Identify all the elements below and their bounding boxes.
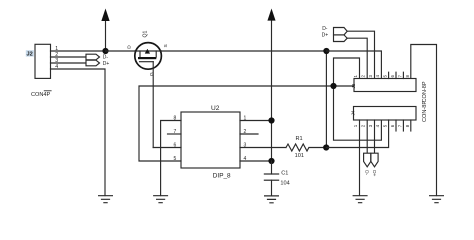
net flag D+ right (334, 35, 348, 42)
wire U2 pin5 long net to right connector (139, 86, 354, 161)
overline on 4P (44, 90, 52, 92)
svg-text:C1: C1 (281, 171, 288, 177)
svg-text:8: 8 (174, 115, 177, 121)
net flag D- left (86, 54, 100, 60)
svg-text:CON-8P: CON-8P (422, 81, 428, 102)
node A vertical link wire (325, 51, 327, 148)
pin 2 stub U2 (240, 133, 258, 135)
svg-text:7: 7 (174, 129, 177, 135)
svg-text:3: 3 (244, 142, 247, 148)
capacitor C1 bottom lead to ground (271, 180, 273, 196)
pin stub J4-7 (402, 120, 404, 131)
wire J4 pin3 to down flag D+ (374, 120, 376, 153)
svg-text:4: 4 (375, 75, 380, 78)
transistor Q1 source step (155, 51, 157, 57)
svg-text:1: 1 (353, 124, 358, 127)
ground 2 (U2 pin8) (154, 196, 168, 203)
svg-text:R1: R1 (296, 136, 303, 142)
svg-text:7: 7 (397, 124, 402, 127)
wire D- right to J3 pin3 (347, 31, 374, 78)
node U2 pin1 junction dot (268, 117, 274, 123)
svg-text:D-: D- (103, 54, 109, 60)
wire J4 pin5 to R1 net (326, 120, 388, 148)
pin stub J4-6 (395, 120, 397, 131)
transistor Q1 body arrow (145, 49, 149, 53)
transistor Q1 drain step (139, 51, 141, 57)
wire J4 pin2 to down flag D- (366, 120, 368, 153)
svg-text:D: D (127, 45, 133, 49)
svg-text:J3: J3 (351, 83, 356, 88)
svg-text:S: S (163, 44, 169, 47)
wire gate Q1 down to U2 pin6 (152, 62, 154, 148)
svg-text:3: 3 (368, 75, 373, 78)
power arrow VBUS head (102, 10, 109, 21)
ground 1 (J2 pin4) (99, 196, 113, 203)
svg-text:J2: J2 (27, 52, 33, 58)
svg-text:4: 4 (375, 124, 380, 127)
svg-text:5: 5 (174, 156, 177, 162)
svg-text:1: 1 (244, 115, 247, 121)
pin stub J3-6 (395, 72, 397, 78)
power arrow 2 stem (271, 20, 273, 161)
pin stub J3-7 (402, 72, 404, 78)
svg-text:D+: D+ (103, 61, 110, 67)
pin stub J3-5 (388, 72, 390, 78)
transistor Q1 internal chord (135, 50, 162, 52)
transistor Q1 gate bar (140, 61, 154, 63)
svg-text:D+: D+ (322, 33, 329, 39)
net flag D- right (334, 28, 348, 35)
transistor Q1 circle (135, 43, 162, 70)
svg-text:8: 8 (405, 75, 410, 78)
pin 7 stub U2 (168, 133, 182, 135)
svg-text:J4: J4 (350, 110, 355, 115)
resistor R1 zigzag (286, 144, 326, 151)
net flag D+ left (86, 60, 100, 66)
svg-text:2: 2 (244, 129, 247, 135)
wire U2 pin3 to R1 (240, 147, 286, 149)
wire pin1 J2 to node VCC (51, 50, 106, 52)
node B junction dot (330, 83, 336, 89)
svg-text:U2: U2 (211, 105, 220, 112)
svg-text:CON4P: CON4P (31, 92, 51, 98)
wire U2 pin1 to power rail (240, 120, 272, 122)
svg-text:5: 5 (383, 75, 388, 78)
svg-text:4: 4 (244, 156, 247, 162)
wire J3 pin8 to ground rail (411, 45, 437, 196)
svg-text:2: 2 (360, 75, 365, 78)
svg-text:3: 3 (368, 124, 373, 127)
connector J3 CON-8P body (354, 79, 416, 92)
svg-text:D-: D- (365, 170, 370, 175)
wire S net to J3 pin4 (326, 51, 381, 79)
node VCC junction dot (102, 48, 108, 54)
svg-text:6: 6 (174, 142, 177, 148)
label J2 highlighted (26, 50, 34, 56)
pin stub J4-8 (410, 120, 412, 131)
power arrow 2 head (268, 10, 275, 20)
power arrow VBUS stem (105, 20, 107, 51)
ground 4 (J4 pin1) (353, 196, 367, 203)
wire S of Q1 to node A (161, 50, 326, 52)
node A dot on S wire (323, 48, 329, 54)
connector J4 CON-8P body (354, 107, 417, 121)
wire pin2 J2 to flag D- (51, 56, 87, 58)
wire U2 pin4 to C1 rail (240, 160, 272, 162)
svg-text:2: 2 (360, 124, 365, 127)
capacitor C1 top lead (271, 161, 273, 174)
transistor Q1 channel bar (138, 57, 156, 59)
ground 5 (far right rail) (430, 196, 444, 203)
wire J4 pin1 to ground (359, 120, 361, 196)
ground 3 (C1) (265, 196, 279, 203)
svg-text:Q1: Q1 (143, 30, 149, 37)
svg-text:D-: D- (322, 26, 328, 32)
svg-text:8: 8 (405, 124, 410, 127)
svg-text:4: 4 (55, 64, 58, 70)
capacitor C1 bottom plate (264, 179, 278, 181)
wire D to Q1 (106, 50, 135, 52)
down net flag D- (364, 153, 371, 167)
wire pin4 J2 to ground (51, 69, 106, 196)
svg-text:1: 1 (353, 75, 358, 78)
wire pin3 J2 to flag D+ (51, 62, 87, 64)
capacitor C1 top plate (264, 173, 278, 175)
IC U2 body (181, 112, 240, 168)
connector J2 CON4P body (35, 44, 51, 78)
svg-text:104: 104 (280, 181, 289, 187)
svg-text:G: G (149, 72, 155, 76)
wire D+ right to J3 pin2 (347, 38, 367, 78)
svg-text:6: 6 (390, 124, 395, 127)
svg-text:CON-8P: CON-8P (422, 101, 428, 122)
wire U2 pin8 to ground (161, 121, 181, 196)
svg-text:7: 7 (397, 75, 402, 78)
node U2 pin4 junction dot (268, 158, 274, 164)
svg-text:DIP_8: DIP_8 (213, 172, 231, 179)
svg-text:D+: D+ (372, 170, 377, 176)
svg-text:6: 6 (390, 75, 395, 78)
svg-text:5: 5 (383, 124, 388, 127)
down net flag D+ (371, 153, 378, 167)
wire net B: J3 pin1 over to left rail down to J4 pin4 (334, 58, 382, 140)
node R1 right junction dot (323, 144, 329, 150)
svg-text:101: 101 (295, 153, 304, 159)
wire U2 pin6 (gate net) (153, 147, 181, 149)
